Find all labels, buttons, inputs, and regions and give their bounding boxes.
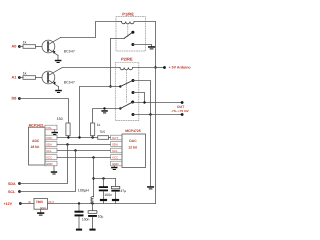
svg-text:1k: 1k — [23, 40, 27, 44]
transistor T2 BC547 — [42, 69, 75, 90]
wire VCC bus — [57, 156, 111, 158]
svg-text:A1: A1 — [12, 76, 17, 80]
capacitor C4 47u — [111, 179, 126, 204]
svg-text:VCC: VCC — [46, 156, 52, 160]
relay P1 mechanical link — [127, 24, 129, 37]
svg-text:12 bit: 12 bit — [128, 146, 138, 150]
svg-text:1k: 1k — [97, 123, 101, 127]
svg-text:7805: 7805 — [36, 200, 43, 204]
wire SCL terminal to bus — [20, 151, 76, 192]
svg-text:10µ: 10µ — [98, 214, 104, 218]
svg-text:VIN-: VIN- — [46, 126, 52, 130]
svg-text:100n: 100n — [104, 193, 112, 197]
pin SCL of U2 — [111, 148, 123, 153]
pin VCC of U2 — [111, 155, 123, 160]
transistor T1 BC547 — [42, 38, 75, 60]
pin VIN+ of U1 — [45, 135, 57, 140]
svg-text:7k5: 7k5 — [100, 130, 106, 134]
svg-text:BC547: BC547 — [64, 81, 75, 85]
wire OUT+ line — [133, 101, 184, 104]
wire T1 collector to relay coil — [61, 22, 117, 38]
resistor R1 1k — [23, 40, 42, 48]
wire pole B common / ground node line — [93, 107, 121, 123]
svg-text:GND: GND — [112, 162, 118, 166]
ground relay P1 contact — [148, 46, 155, 49]
ground pin GND U2 — [111, 166, 117, 170]
pin SCL of U1 — [45, 148, 57, 153]
svg-text:+ 5V Arduino: + 5V Arduino — [169, 66, 192, 70]
pin SDA of U1 — [45, 142, 57, 147]
svg-text:P2/RE: P2/RE — [121, 57, 133, 62]
ground T2 emitter — [55, 90, 62, 93]
pin VCC of U1 — [45, 155, 57, 160]
svg-text:100µH: 100µH — [78, 189, 89, 193]
svg-text:VIN+: VIN+ — [46, 136, 53, 140]
node +12V terminal — [4, 202, 35, 206]
ground OUT- branch — [147, 186, 154, 189]
relay P2 switch pole A — [111, 79, 135, 94]
relay P2 switch pole B — [119, 101, 134, 117]
capacitor C2 10u — [88, 204, 103, 231]
wire D8 to resistor 150 — [19, 99, 68, 124]
svg-text:VCC: VCC — [112, 156, 118, 160]
pin SDA of U2 — [111, 142, 123, 147]
IC U1 MCP3421 box — [29, 124, 46, 166]
node SDA terminal — [8, 182, 21, 186]
node pole A common junction — [109, 85, 111, 87]
wire decoupling branch — [94, 177, 116, 179]
resistor R2 1k — [23, 71, 42, 79]
wire +5V rail down to regulator line — [155, 68, 157, 204]
wire OUT- branch to ground — [150, 115, 152, 187]
pin VIN- of U1 — [45, 125, 57, 130]
pin OUT of U2 — [111, 135, 123, 140]
svg-text:47µ: 47µ — [120, 189, 126, 193]
inductor L1 100uH — [78, 189, 94, 204]
resistor R5 7k5 — [98, 130, 111, 139]
wire pole A upper contact to OUT- — [133, 81, 151, 115]
capacitor C3 100n — [99, 179, 112, 204]
wire pole A lower contact to OUT+ — [133, 93, 145, 103]
svg-text:SCL: SCL — [46, 149, 52, 153]
relay P1 coil — [116, 22, 156, 24]
svg-text:18 bit: 18 bit — [31, 145, 41, 149]
svg-text:SDA: SDA — [112, 143, 118, 147]
svg-text:SDA: SDA — [46, 143, 52, 147]
svg-text:A0: A0 — [12, 45, 17, 49]
ground pin VIN- — [52, 130, 58, 135]
label OUT terminals — [171, 105, 188, 113]
wire T2 collector to relay2 coil — [61, 68, 121, 69]
ground node line — [101, 110, 107, 113]
pin GND of U1 — [45, 161, 57, 166]
svg-text:MCP4725: MCP4725 — [125, 129, 141, 133]
svg-text:GND: GND — [46, 162, 52, 166]
svg-text:BC547: BC547 — [64, 50, 75, 54]
svg-text:P1/RE: P1/RE — [122, 12, 134, 17]
svg-text:IN: IN — [28, 200, 31, 204]
node A1 — [12, 76, 24, 80]
node +5V junction — [154, 66, 156, 68]
svg-text:SDA: SDA — [8, 182, 16, 186]
svg-text:SCL: SCL — [8, 190, 16, 194]
svg-text:-70...+70 mV: -70...+70 mV — [171, 109, 188, 113]
wire relay common rail — [110, 39, 112, 87]
svg-text:ADC: ADC — [32, 139, 40, 143]
svg-text:DAC: DAC — [129, 139, 137, 143]
pin GND of U2 — [111, 161, 123, 166]
svg-text:OUT: OUT — [112, 136, 118, 140]
wire SDA terminal to bus — [20, 145, 68, 184]
relay P2 mechanical link — [126, 70, 128, 103]
regulator IC3 7805 — [28, 199, 54, 210]
relay P1/RE box — [116, 12, 146, 52]
resistor R4 1k vertical — [91, 123, 101, 138]
svg-text:+12V: +12V — [4, 202, 13, 206]
wire SCL bus — [57, 149, 111, 151]
relay P2 coil — [120, 68, 156, 70]
resistor R3 150 — [57, 117, 71, 138]
svg-text:150: 150 — [57, 117, 63, 121]
relay P1 switch — [111, 31, 152, 47]
wire +5V rail from relay P1 — [155, 22, 157, 68]
IC U2 MCP4725 box — [122, 129, 146, 168]
ground 7805 — [37, 209, 44, 215]
wire VCC riser — [92, 158, 94, 197]
node A0 — [12, 45, 24, 49]
svg-text:D8: D8 — [12, 96, 17, 100]
svg-text:100n: 100n — [82, 217, 90, 221]
wire +5V main line — [48, 202, 156, 204]
svg-text:SCL: SCL — [112, 149, 118, 153]
wire node line VIN+ — [57, 136, 98, 138]
svg-text:1k: 1k — [23, 71, 27, 75]
relay P2/RE box — [115, 57, 139, 121]
wire pole A common to node riser — [80, 87, 111, 138]
wire SDA bus — [57, 143, 111, 145]
node SCL terminal — [8, 190, 21, 194]
capacitor C1 100n — [75, 204, 90, 231]
node D8 — [12, 96, 21, 100]
node +5V Arduino terminal — [156, 66, 192, 70]
ground T1 emitter — [55, 60, 62, 63]
ground pin GND U1 — [51, 166, 57, 175]
wire OUT- line — [133, 113, 184, 116]
